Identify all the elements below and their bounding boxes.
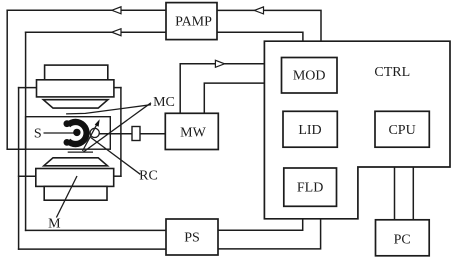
svg-text:RC: RC (139, 169, 158, 184)
svg-text:M: M (48, 217, 61, 232)
svg-text:MC: MC (153, 95, 175, 110)
svg-text:CTRL: CTRL (374, 65, 410, 80)
svg-text:PS: PS (184, 231, 200, 246)
svg-text:PC: PC (394, 233, 411, 248)
svg-text:MW: MW (180, 126, 206, 141)
svg-text:PAMP: PAMP (175, 15, 212, 30)
svg-text:MOD: MOD (293, 69, 326, 84)
svg-text:LID: LID (298, 123, 321, 138)
svg-text:CPU: CPU (388, 123, 415, 138)
svg-text:FLD: FLD (297, 181, 323, 196)
svg-text:S: S (34, 126, 42, 141)
